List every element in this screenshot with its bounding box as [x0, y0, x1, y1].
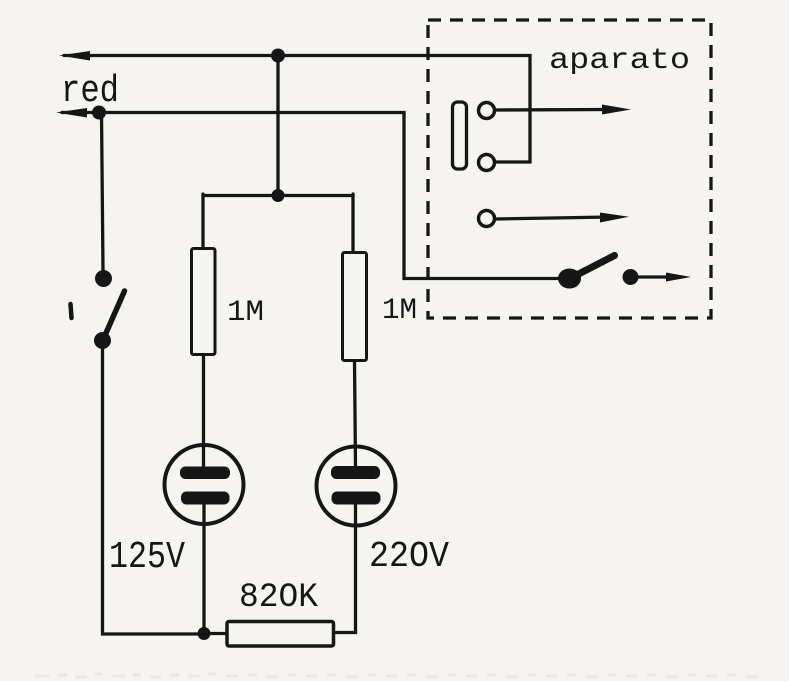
svg-text:red: red	[61, 70, 119, 113]
svg-text:125V: 125V	[109, 536, 185, 579]
svg-text:82OK: 82OK	[239, 579, 319, 617]
svg-text:1M: 1M	[382, 294, 417, 328]
svg-text:1M: 1M	[227, 296, 264, 330]
svg-text:22OV: 22OV	[369, 536, 449, 577]
svg-text:aparato: aparato	[549, 44, 690, 78]
